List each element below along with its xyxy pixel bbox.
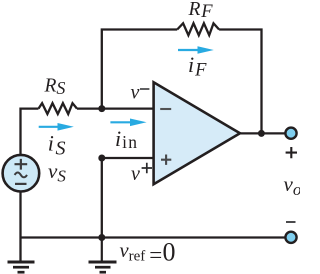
svg-text:0: 0 [163,238,176,267]
label v+ (noninverting input) [131,163,152,185]
terminal: vo + [285,128,296,139]
node: noninverting input junction [98,155,105,162]
current arrow iin [110,119,146,127]
svg-text:vS: vS [48,159,66,186]
svg-text:vo: vo [284,172,301,199]
wire: rail junction stub to ground (center) [101,238,103,261]
wire: noninverting input branch down to ground rail [102,158,155,238]
svg-text:iF: iF [188,52,207,81]
current arrow iS [39,123,74,131]
label vref = 0 [120,238,176,268]
wire: op-amp output to terminal [239,132,288,134]
node: ground rail junction [98,234,105,241]
wire: RS to op-amp inverting input [77,107,155,109]
svg-text:v: v [131,163,140,185]
label - (output polarity) [286,221,296,223]
op-amp U1 [154,82,240,184]
node: output junction [258,130,265,137]
wire: source bottom down to ground [19,191,21,261]
wire: inverting node up to feedback top [102,30,177,111]
resistor RF [177,23,219,35]
resistor RS [39,103,78,114]
wire: source top to RS [21,109,39,156]
wire: bottom reference rail [21,236,288,238]
svg-text:iin: iin [115,126,138,152]
svg-text:iS: iS [48,131,66,160]
terminal: vo - [285,232,296,243]
svg-text:=: = [149,242,162,267]
svg-text:RS: RS [44,75,66,98]
node: inverting input junction [98,105,105,112]
ground (left) [8,262,35,272]
source vS [3,155,40,192]
wire: RF to output node [219,30,261,134]
label v- (inverting input) [131,82,150,104]
svg-text:vref: vref [120,240,146,265]
svg-text:RF: RF [188,0,214,22]
label + (output polarity) [286,147,297,158]
svg-text:v: v [131,82,140,104]
current arrow iF [178,46,214,54]
ground (center) [89,262,117,272]
